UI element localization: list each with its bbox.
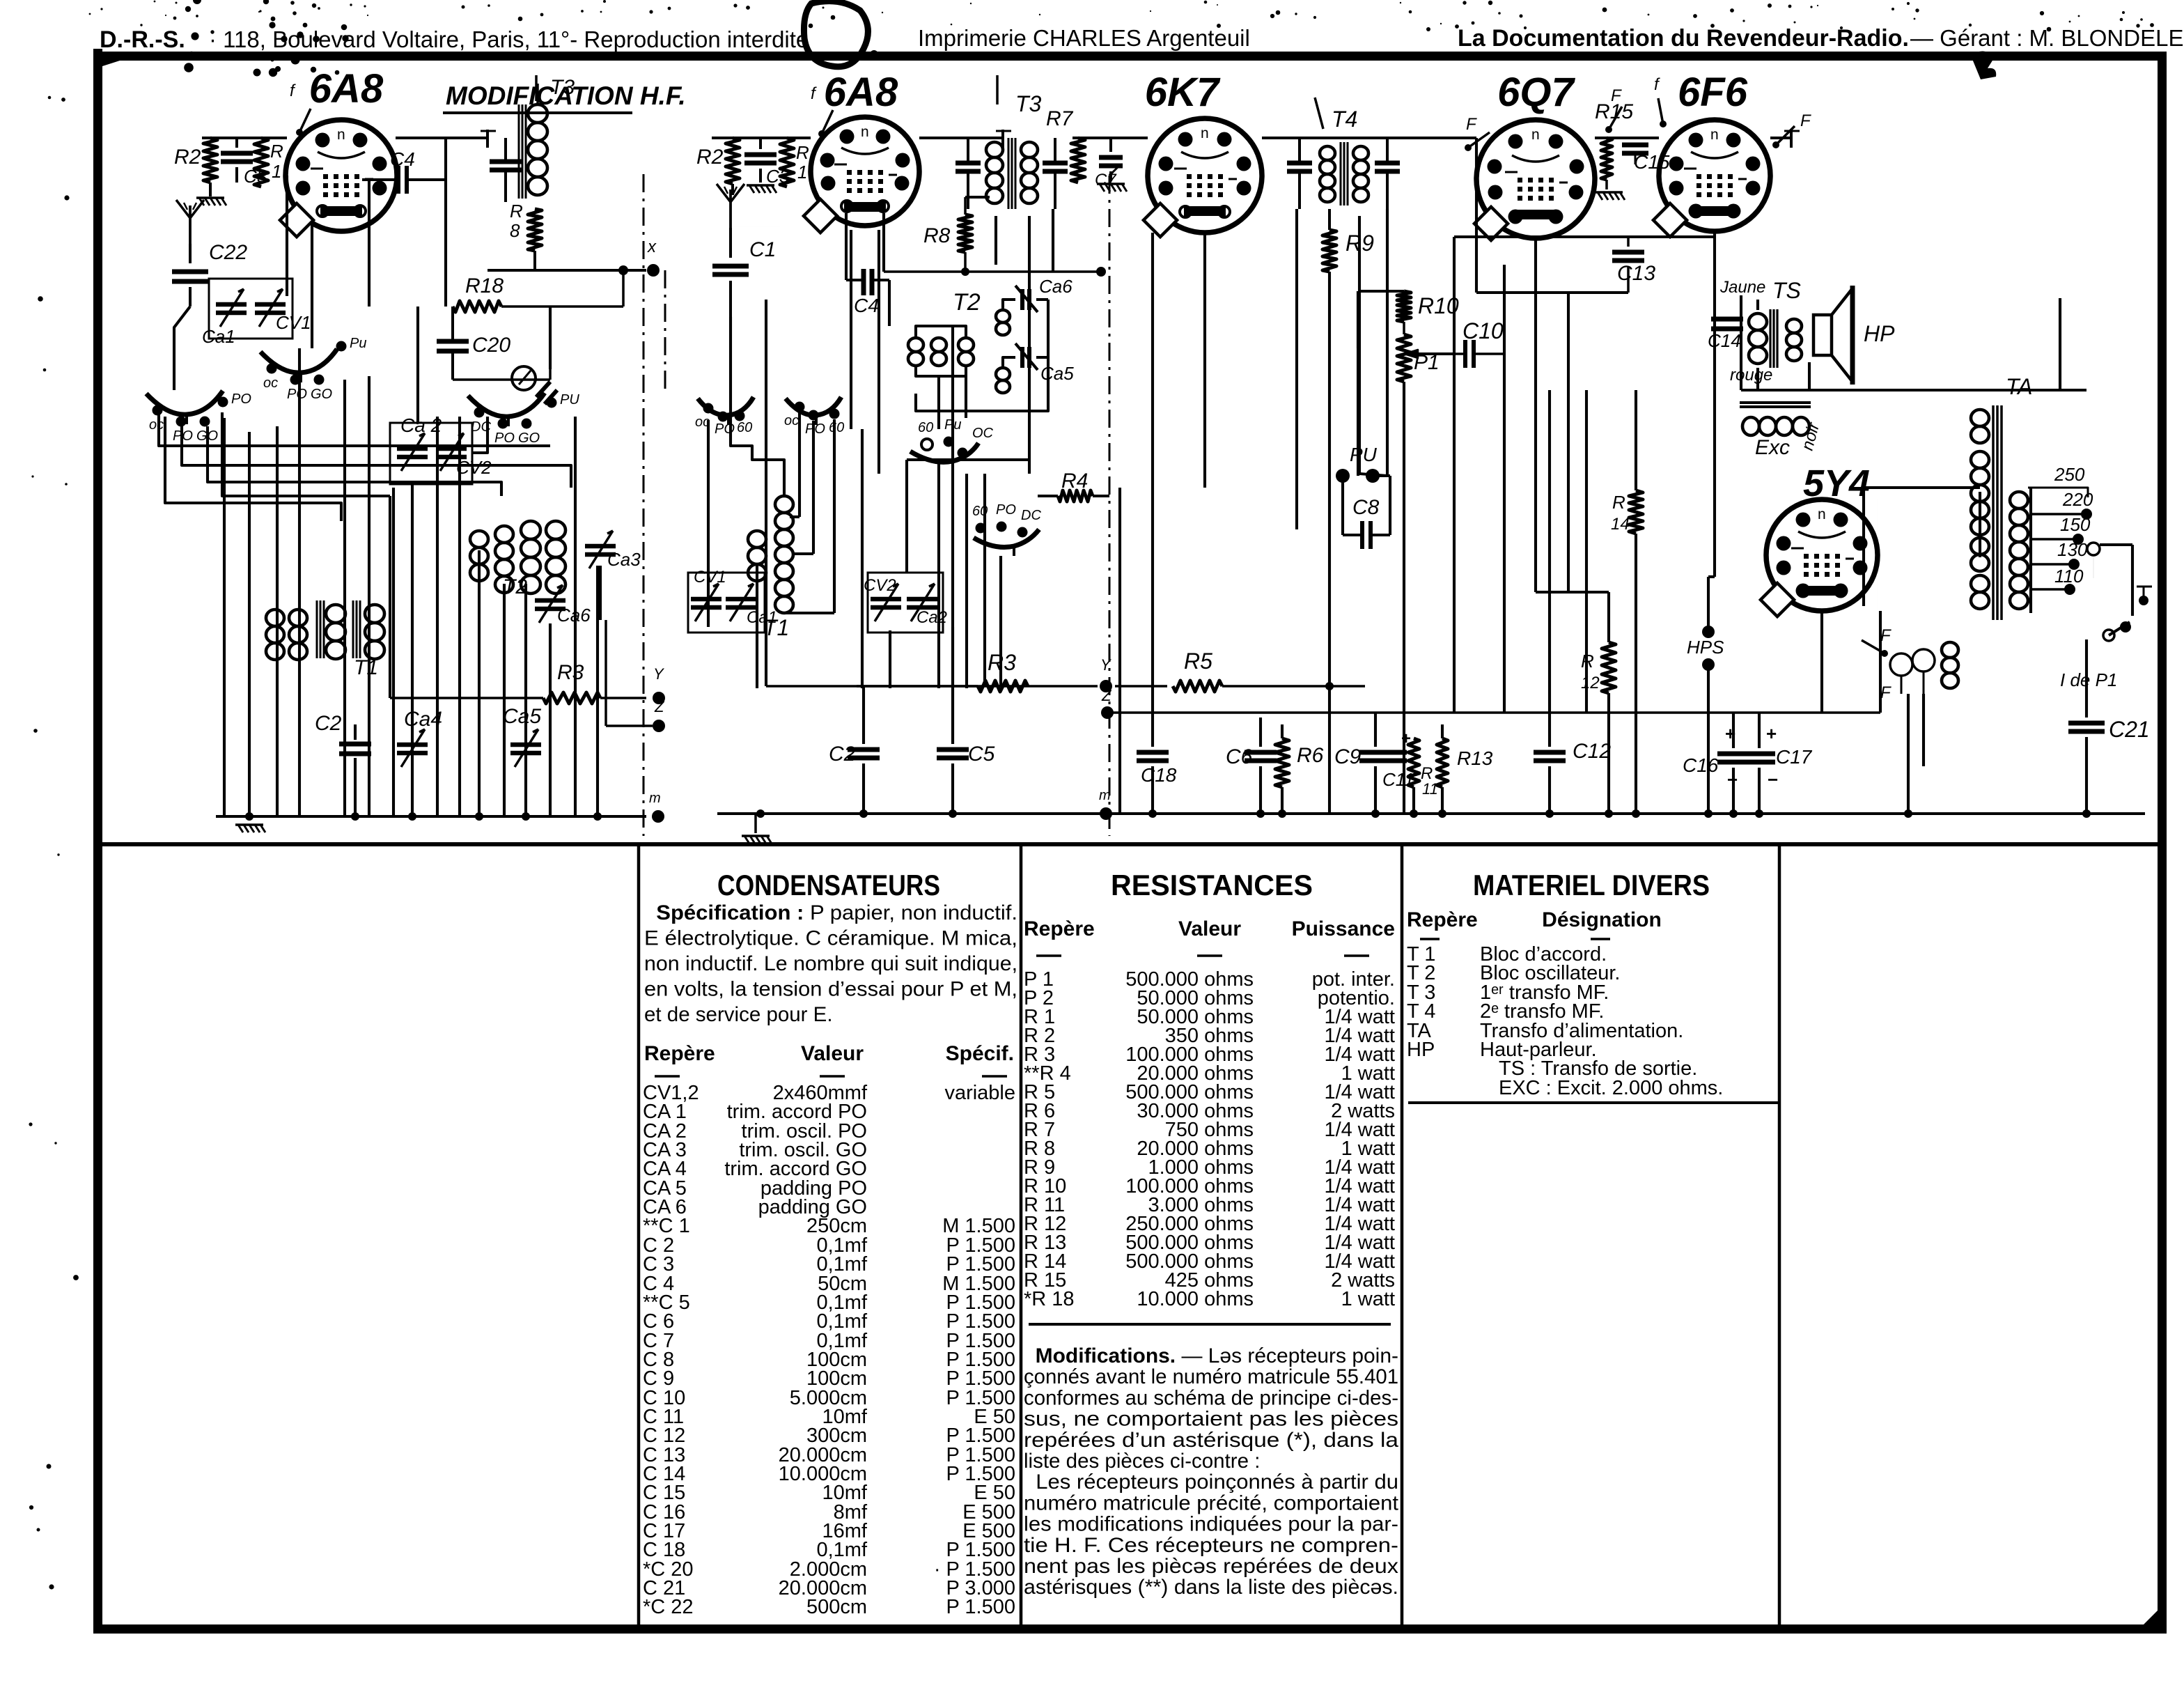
resistor R9 bbox=[1323, 209, 1374, 488]
svg-text:non inductif. Le nombre qui su: non inductif. Le nombre qui suit indique… bbox=[644, 952, 1017, 975]
antenna (main) bbox=[717, 184, 744, 228]
dash-dot line main section bbox=[1109, 167, 1120, 836]
svg-text:Repère: Repère bbox=[1407, 908, 1478, 931]
filament arrows V4 V5 bbox=[1465, 75, 1811, 151]
svg-text:C1: C1 bbox=[749, 238, 776, 261]
svg-text:Désignation: Désignation bbox=[1542, 908, 1662, 931]
svg-text:C2: C2 bbox=[315, 712, 342, 735]
svg-text:variable: variable bbox=[944, 1082, 1015, 1104]
svg-text:130: 130 bbox=[2057, 539, 2088, 560]
svg-text:Valeur: Valeur bbox=[1178, 917, 1241, 940]
svg-text:R3: R3 bbox=[557, 661, 584, 684]
capacitor C5 bbox=[937, 627, 995, 814]
svg-text:6A8: 6A8 bbox=[309, 66, 384, 111]
svg-text:C18: C18 bbox=[1141, 764, 1177, 786]
capacitor C3 (main) bbox=[744, 138, 790, 187]
svg-text:astérisques (**) dans la li: astérisques (**) dans la liste des piècə… bbox=[1024, 1576, 1398, 1599]
band switch S1b (left) bbox=[260, 336, 366, 402]
svg-text:C16: C16 bbox=[1683, 754, 1719, 776]
terminal Y (left) bbox=[653, 665, 665, 704]
svg-text:C13: C13 bbox=[1617, 262, 1655, 285]
svg-text:Ca5: Ca5 bbox=[503, 705, 541, 728]
svg-text:E électrolytique. C céramique: E électrolytique. C céramique. M mica, bbox=[644, 927, 1017, 950]
svg-text:OC: OC bbox=[972, 426, 994, 441]
field coil EXC bbox=[1740, 403, 1811, 459]
svg-text:6K7: 6K7 bbox=[1145, 70, 1221, 115]
svg-text:HP: HP bbox=[1407, 1039, 1435, 1061]
svg-text:1 watt: 1 watt bbox=[1341, 1288, 1395, 1310]
svg-text:MATERIEL DIVERS: MATERIEL DIVERS bbox=[1473, 869, 1710, 901]
svg-text:PO: PO bbox=[805, 421, 825, 437]
tuning coil T1 (left) bbox=[266, 600, 384, 679]
svg-text:110: 110 bbox=[2054, 566, 2084, 587]
label MODIFICATION H.F. bbox=[443, 82, 686, 113]
ground under R2 (left) bbox=[196, 198, 226, 205]
svg-text:sus, ne comportaient pas: sus, ne comportaient pas les pièces bbox=[1024, 1408, 1398, 1431]
wire ground bus main section bbox=[717, 809, 2145, 818]
svg-text:R7: R7 bbox=[1046, 107, 1074, 130]
svg-text:n: n bbox=[861, 124, 869, 140]
transformer T3 1st MF (main) bbox=[955, 75, 1068, 209]
svg-text:F: F bbox=[1800, 111, 1811, 130]
svg-text:T1: T1 bbox=[354, 656, 378, 679]
terminal HPS bbox=[1687, 577, 1724, 814]
svg-text:R5: R5 bbox=[1184, 649, 1212, 674]
capacitor C15 bbox=[1622, 138, 1670, 173]
svg-text:Repère: Repère bbox=[644, 1042, 715, 1065]
capacitor C7 bbox=[1095, 138, 1123, 189]
svg-text:C9: C9 bbox=[1334, 745, 1362, 768]
svg-text:R2: R2 bbox=[174, 146, 201, 169]
capacitor C10 bbox=[1454, 318, 1504, 368]
svg-text:oc: oc bbox=[784, 413, 799, 428]
trimmer CV2/Ca2 (main) bbox=[864, 573, 947, 633]
svg-text:Pu: Pu bbox=[350, 336, 366, 351]
svg-text:500cm: 500cm bbox=[806, 1596, 867, 1618]
switch 60-PO-DC (main lower) bbox=[972, 502, 1041, 556]
resistor R13 bbox=[1437, 724, 1493, 814]
pilot lamps bbox=[1862, 626, 1958, 702]
trimmer Ca5 (main) bbox=[916, 300, 1074, 411]
output transformer TS bbox=[1708, 278, 1802, 385]
svg-text:EXC : Excit. 2.000 ohms.: EXC : Excit. 2.000 ohms. bbox=[1499, 1077, 1723, 1099]
trimmer Ca4 bbox=[397, 708, 442, 767]
svg-text:C12: C12 bbox=[1573, 740, 1611, 763]
resistor R1 (main) bbox=[780, 138, 809, 187]
svg-text:les modifications indiquées: les modifications indiquées pour la par- bbox=[1024, 1513, 1398, 1536]
potentiometer P1 bbox=[1397, 322, 1454, 382]
svg-text:R8: R8 bbox=[923, 224, 951, 247]
svg-text:T2: T2 bbox=[503, 575, 527, 598]
svg-text:6Q7: 6Q7 bbox=[1497, 70, 1575, 115]
wires main section verticals bbox=[766, 138, 2060, 814]
resistor R14 bbox=[1611, 390, 1643, 814]
svg-text:Ca1: Ca1 bbox=[747, 608, 777, 627]
trimmer CV1/Ca1 (main) bbox=[688, 568, 777, 633]
svg-text:Ca6: Ca6 bbox=[1039, 276, 1072, 297]
svg-text:12: 12 bbox=[1581, 674, 1600, 692]
svg-text:C5: C5 bbox=[968, 743, 995, 766]
mains taps 250 220 150 130 110 bbox=[2028, 464, 2132, 690]
terminal Z (main) bbox=[1101, 687, 1114, 719]
svg-text:F: F bbox=[1880, 626, 1891, 645]
wires main tuner cluster bbox=[708, 412, 1029, 688]
svg-text:60: 60 bbox=[918, 420, 933, 435]
svg-text:n: n bbox=[1710, 127, 1719, 143]
svg-text:C22: C22 bbox=[209, 241, 247, 264]
svg-text:T3: T3 bbox=[1015, 91, 1042, 116]
svg-text:D.-R.-S.: D.-R.-S. bbox=[100, 26, 185, 53]
terminal x bbox=[647, 238, 660, 277]
section boundary dash-dot line bbox=[643, 174, 665, 836]
tube V5 6F6 bbox=[1653, 120, 1770, 237]
svg-text:GO: GO bbox=[311, 387, 332, 402]
section divider rule bbox=[102, 842, 2158, 846]
power transformer TA bbox=[1971, 374, 2033, 620]
resistor R2 (left) bbox=[174, 138, 217, 196]
oscillator block T2 (main) bbox=[908, 289, 1010, 393]
svg-text:T2: T2 bbox=[953, 289, 981, 316]
svg-text:Y: Y bbox=[653, 665, 664, 683]
capacitor C21 bbox=[2068, 639, 2150, 814]
trimmer Ca2 / CV2 (left) bbox=[390, 414, 492, 484]
svg-text:1: 1 bbox=[272, 161, 281, 182]
svg-text:C6: C6 bbox=[1226, 745, 1253, 768]
svg-text:Z: Z bbox=[654, 698, 665, 715]
tube V3 6K7 bbox=[1144, 118, 1262, 237]
wires main section horizontals bbox=[731, 226, 2086, 713]
svg-text:Valeur: Valeur bbox=[801, 1042, 864, 1065]
svg-text:GO: GO bbox=[518, 431, 540, 446]
antenna (left) bbox=[176, 200, 204, 244]
svg-text:C21: C21 bbox=[2109, 717, 2150, 742]
svg-text:Ca 2: Ca 2 bbox=[400, 414, 442, 436]
svg-text:en volts, la tension d’essa: en volts, la tension d’essai pour P et M… bbox=[644, 978, 1017, 1001]
ground under R15 bbox=[1595, 192, 1625, 200]
svg-text:6F6: 6F6 bbox=[1678, 70, 1748, 115]
svg-text:x: x bbox=[647, 238, 657, 256]
svg-text:Z: Z bbox=[1101, 687, 1112, 704]
resistor R3 (left) bbox=[390, 661, 646, 704]
svg-text:HPS: HPS bbox=[1687, 637, 1724, 658]
svg-text:m: m bbox=[649, 791, 661, 806]
svg-text:oc: oc bbox=[263, 375, 278, 391]
svg-text:Pu: Pu bbox=[944, 417, 961, 433]
resistor R7 bbox=[1046, 107, 1085, 183]
svg-text:n: n bbox=[1531, 127, 1540, 143]
svg-text:et de service pour E.: et de service pour E. bbox=[644, 1003, 833, 1026]
svg-text:C14: C14 bbox=[1708, 330, 1741, 351]
svg-text:çonnés avant le numéro matricu: çonnés avant le numéro matricule 55.401 bbox=[1024, 1365, 1398, 1388]
capacitor C20 bbox=[437, 307, 550, 380]
tube V1 6A8 modification bbox=[280, 120, 397, 237]
svg-text:60: 60 bbox=[829, 420, 844, 435]
terminal Y (main) bbox=[1100, 656, 1112, 692]
svg-text:PU: PU bbox=[560, 392, 579, 408]
svg-text:R18: R18 bbox=[465, 274, 504, 297]
table column rule 4 bbox=[1778, 846, 1781, 1624]
svg-text:C17: C17 bbox=[1776, 746, 1813, 768]
svg-text:8: 8 bbox=[510, 220, 520, 241]
resistor R10 bbox=[1397, 291, 1459, 322]
svg-text:Imprimerie CHARLES Argenteuil: Imprimerie CHARLES Argenteuil bbox=[918, 25, 1250, 51]
tuning coil T1 (main) bbox=[748, 496, 834, 640]
trimmer CV1 (left) bbox=[202, 279, 311, 347]
tube V2 6A8 main bbox=[804, 117, 919, 233]
svg-text:repérées d’un astérisque: repérées d’un astérisque (*), dans la bbox=[1024, 1429, 1399, 1452]
capacitor C16 electrolytic bbox=[1683, 713, 1749, 814]
capacitor C18 bbox=[1137, 713, 1177, 814]
ground under C3 (main) bbox=[747, 185, 777, 193]
wire x-terminal run bbox=[487, 265, 646, 275]
svg-text:tie H. F. Ces récepteurs: tie H. F. Ces récepteurs ne compren- bbox=[1024, 1534, 1398, 1557]
svg-text:n: n bbox=[1201, 125, 1209, 141]
wires left section staircase interconnects bbox=[159, 138, 600, 740]
svg-text:*C 22: *C 22 bbox=[643, 1596, 694, 1618]
svg-text:C2: C2 bbox=[829, 743, 856, 766]
filament arrow f V1 bbox=[290, 82, 311, 136]
wire top rail main section bbox=[712, 130, 1800, 148]
svg-text:60: 60 bbox=[972, 504, 988, 519]
svg-text:oc: oc bbox=[149, 417, 164, 433]
svg-text:F: F bbox=[1611, 86, 1622, 105]
terminal m (left) bbox=[649, 791, 664, 823]
svg-text:TA: TA bbox=[2006, 374, 2033, 399]
svg-text:R4: R4 bbox=[1061, 470, 1088, 493]
wire anode rail V2 bbox=[884, 213, 1106, 277]
svg-text:· 118, Boulevard Voltaire, Par: · 118, Boulevard Voltaire, Paris, 11°- R… bbox=[209, 26, 809, 52]
svg-text:CV2: CV2 bbox=[456, 457, 492, 478]
svg-text:HP: HP bbox=[1864, 321, 1895, 346]
resistor R4 bbox=[1038, 470, 1109, 502]
terminals PU pickup bbox=[1336, 444, 1390, 483]
svg-text:C20: C20 bbox=[472, 334, 510, 357]
svg-text:numéro matricule précité, c: numéro matricule précité, comportaient bbox=[1024, 1491, 1398, 1514]
transformer T4 2nd MF bbox=[1287, 98, 1400, 209]
svg-text:PO: PO bbox=[231, 391, 251, 407]
capacitor C9 bbox=[1334, 713, 1391, 814]
trimmer Ca6 (main) bbox=[1003, 276, 1072, 312]
resistor R8 (left) bbox=[510, 201, 542, 270]
svg-text:+: + bbox=[1766, 723, 1777, 744]
svg-text:C4: C4 bbox=[390, 148, 415, 170]
svg-text:liste des pièces ci-contre: liste des pièces ci-contre : bbox=[1024, 1450, 1260, 1473]
svg-text:60: 60 bbox=[737, 420, 752, 435]
svg-text:C8: C8 bbox=[1352, 496, 1380, 519]
resistor R2 (main) bbox=[696, 138, 740, 195]
ground main bus bbox=[742, 814, 772, 844]
svg-text:CONDENSATEURS: CONDENSATEURS bbox=[717, 869, 940, 901]
capacitor C17 electrolytic bbox=[1743, 713, 1813, 814]
oscillator coil T2 (left) bbox=[470, 521, 565, 598]
svg-text:250: 250 bbox=[2054, 464, 2085, 485]
svg-text:−: − bbox=[1768, 769, 1778, 790]
switch 60-PO-OC (main upper) bbox=[910, 417, 994, 471]
svg-text:RESISTANCES: RESISTANCES bbox=[1111, 869, 1313, 901]
svg-text:n: n bbox=[337, 127, 345, 143]
svg-text:Puissance: Puissance bbox=[1292, 917, 1395, 940]
capacitor C4 (main) bbox=[846, 213, 889, 326]
table column rule 3 bbox=[1401, 846, 1404, 1624]
svg-text:Ca1: Ca1 bbox=[202, 326, 235, 347]
resistor R6 bbox=[1275, 724, 1324, 814]
capacitor C2 (main) bbox=[829, 686, 880, 814]
svg-text:P 1.500: P 1.500 bbox=[946, 1596, 1015, 1618]
svg-text:nent pas les piècəs repéré: nent pas les piècəs repérées de deux bbox=[1024, 1555, 1398, 1578]
resistor R11 bbox=[1408, 738, 1438, 814]
band switch S1a (left) bbox=[146, 391, 251, 444]
svg-text:Ca3: Ca3 bbox=[607, 549, 641, 570]
table column rule 2 bbox=[1020, 846, 1023, 1624]
svg-text:PO: PO bbox=[996, 502, 1016, 518]
capacitor C11 electrolytic bbox=[1379, 729, 1414, 790]
resistor R8 (main) bbox=[923, 197, 990, 276]
svg-text:R: R bbox=[510, 201, 523, 222]
band switch S2a (main) bbox=[695, 397, 754, 437]
wire ground bus left section bbox=[216, 812, 646, 821]
transformer T3 (left) 1st MF bbox=[490, 75, 575, 202]
resistor R3 (main) bbox=[857, 650, 1028, 692]
svg-text:R: R bbox=[796, 142, 809, 163]
svg-text:Spécification : P papier, non: Spécification : P papier, non inductif. bbox=[644, 901, 1017, 924]
svg-text:14: 14 bbox=[1611, 515, 1630, 534]
resistor R18 bbox=[453, 270, 623, 380]
trimmer Ca6 (left) bbox=[535, 585, 591, 626]
trimmer Ca5 bbox=[503, 705, 541, 767]
capacitor C13 bbox=[1612, 237, 1655, 293]
tube V6 5Y4 rectifier bbox=[1761, 499, 1878, 616]
wire Y-Z rail main bbox=[766, 682, 1880, 713]
resistances table bbox=[1024, 869, 1399, 1599]
svg-text:Repère: Repère bbox=[1024, 917, 1095, 940]
condensateurs table bbox=[643, 869, 1017, 1618]
svg-text:6A8: 6A8 bbox=[824, 70, 898, 115]
svg-text:n: n bbox=[1818, 506, 1826, 522]
svg-text:DC: DC bbox=[1021, 508, 1041, 523]
ground under C7 bbox=[1097, 184, 1127, 192]
loudspeaker HP bbox=[1813, 286, 1895, 385]
table column rule 1 bbox=[637, 846, 641, 1624]
wires left section verticals bbox=[224, 376, 598, 816]
svg-text:conformes au schéma de princip: conformes au schéma de principe ci-des- bbox=[1024, 1386, 1398, 1409]
svg-text:F: F bbox=[1466, 115, 1477, 134]
capacitor C6 bbox=[1226, 718, 1277, 814]
capacitor C12 bbox=[1534, 713, 1611, 814]
svg-text:10.000 ohms: 10.000 ohms bbox=[1137, 1288, 1254, 1310]
svg-text:Spécif.: Spécif. bbox=[946, 1042, 1014, 1065]
capacitor C8 bbox=[1343, 476, 1390, 549]
svg-text:PO: PO bbox=[287, 387, 307, 402]
svg-text:rouge: rouge bbox=[1730, 366, 1772, 385]
header imprint line bbox=[100, 25, 2184, 53]
capacitor C3 (left) bbox=[221, 138, 267, 187]
capacitor C2 (left) bbox=[315, 712, 371, 754]
svg-text:11: 11 bbox=[1422, 780, 1438, 798]
svg-text:R2: R2 bbox=[696, 146, 724, 169]
filament arrow f V2 bbox=[811, 84, 833, 137]
svg-text:Jaune: Jaune bbox=[1719, 278, 1765, 297]
capacitor C4 (left) bbox=[362, 148, 446, 194]
materiel divers table bbox=[1407, 869, 1778, 1103]
svg-text:C4: C4 bbox=[854, 295, 879, 316]
terminal Z (left) bbox=[606, 620, 665, 732]
band switch S1c osc (left) bbox=[468, 366, 579, 446]
svg-text:F: F bbox=[1880, 683, 1891, 702]
svg-text:CV1: CV1 bbox=[694, 568, 726, 587]
svg-text:Exc: Exc bbox=[1755, 436, 1790, 459]
svg-text:*R 18: *R 18 bbox=[1024, 1288, 1075, 1310]
svg-text:R: R bbox=[1612, 492, 1625, 513]
svg-text:PO: PO bbox=[494, 431, 515, 446]
svg-text:Ca5: Ca5 bbox=[1040, 363, 1074, 384]
trimmer Ca3 (left) bbox=[585, 531, 641, 570]
svg-text:Modifications. — Ləs récepteu: Modifications. — Ləs récepteurs poin- bbox=[1024, 1344, 1398, 1367]
svg-text:I de P1: I de P1 bbox=[2060, 669, 2117, 690]
capacitor C1 bbox=[712, 228, 776, 317]
capacitor C22 bbox=[172, 241, 247, 307]
svg-text:T4: T4 bbox=[1332, 107, 1357, 132]
terminal m (main) bbox=[1099, 788, 1112, 820]
svg-text:Les récepteurs poinçonnés à: Les récepteurs poinçonnés à partir du bbox=[1024, 1471, 1398, 1494]
resistor R15 bbox=[1595, 100, 1633, 189]
tube V4 6Q7 bbox=[1474, 120, 1595, 240]
band switch S2b (main) bbox=[784, 397, 844, 437]
svg-text:PU: PU bbox=[1350, 444, 1378, 465]
svg-text:R: R bbox=[270, 141, 283, 162]
resistor R5 bbox=[1173, 649, 1222, 692]
svg-text:C10: C10 bbox=[1462, 318, 1504, 343]
resistor R1 (left) bbox=[254, 138, 283, 187]
svg-text:TS: TS bbox=[1772, 278, 1801, 303]
ground left bus bbox=[235, 825, 265, 832]
resistor R12 bbox=[1568, 592, 1616, 814]
switch interrupteur mains bbox=[2137, 587, 2152, 605]
svg-text:1: 1 bbox=[797, 162, 807, 183]
svg-text:R13: R13 bbox=[1457, 747, 1493, 769]
svg-text:T3: T3 bbox=[550, 76, 575, 99]
svg-text:R6: R6 bbox=[1297, 744, 1324, 767]
wire top rail left section bbox=[202, 130, 496, 148]
